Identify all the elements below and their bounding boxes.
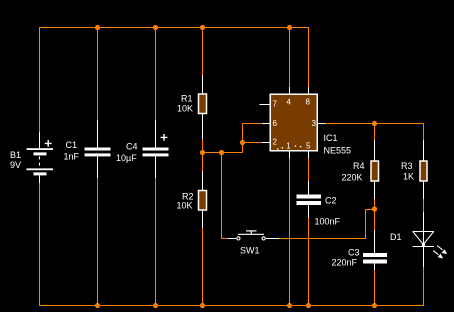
label C3 220nF <box>332 248 360 268</box>
wire R3 bottom to LED <box>423 199 425 212</box>
pin number 5 <box>306 142 311 151</box>
junction pin3 R4 <box>372 121 377 126</box>
label R3 1K <box>401 161 414 182</box>
pin 2 stub <box>262 142 270 144</box>
svg-text:10K: 10K <box>177 104 193 114</box>
wire pin5 to C2 <box>308 159 310 182</box>
svg-text:D1: D1 <box>390 232 402 242</box>
pin number 2 <box>273 138 278 147</box>
label B1 9V <box>10 150 21 170</box>
wire pin1 to ground <box>289 159 291 306</box>
svg-text:3: 3 <box>312 119 317 128</box>
pin 5 stub <box>308 152 310 159</box>
svg-text:R1: R1 <box>181 94 193 104</box>
wire battery top riser <box>39 27 41 132</box>
wire bottom rail ground <box>39 305 424 307</box>
pin 4 stub <box>289 87 291 94</box>
svg-text:R4: R4 <box>353 161 365 171</box>
pin 8 stub <box>308 87 310 94</box>
junction bottom C3 <box>372 303 377 308</box>
junction top R1 <box>200 25 205 30</box>
svg-text:220nF: 220nF <box>332 258 358 268</box>
junction pin2 tap <box>240 140 245 145</box>
capacitor C3 <box>363 230 387 270</box>
capacitor C1 <box>85 120 111 178</box>
resistor R1 <box>199 75 207 139</box>
svg-text:SW1: SW1 <box>240 246 260 256</box>
pin number 3 <box>312 119 317 128</box>
svg-text:5: 5 <box>306 142 311 151</box>
pin number 4 <box>287 98 292 107</box>
svg-text:C3: C3 <box>348 248 360 258</box>
svg-text:R3: R3 <box>401 161 413 171</box>
svg-text:2: 2 <box>273 138 278 147</box>
wire battery bottom riser <box>39 183 41 306</box>
wire pin8 drop <box>308 27 310 87</box>
svg-text:1K: 1K <box>403 172 414 182</box>
label C4 10uF <box>116 142 138 164</box>
wire node A horizontal R1R2 to pins 2-6 <box>203 152 243 154</box>
svg-text:100nF: 100nF <box>315 217 341 227</box>
svg-text:9V: 9V <box>10 160 21 170</box>
svg-text:1nF: 1nF <box>64 152 80 162</box>
svg-text:4: 4 <box>287 98 292 107</box>
pin number 7 <box>273 100 278 109</box>
svg-text:NE555: NE555 <box>324 146 352 156</box>
svg-text:8: 8 <box>306 98 311 107</box>
svg-text:C4: C4 <box>126 142 138 152</box>
capacitor C2 <box>297 181 322 218</box>
resistor R4 <box>371 140 379 199</box>
svg-text:220K: 220K <box>342 173 363 183</box>
pin 7 stub <box>260 104 271 106</box>
op-amp U1 IC1 NE555 body <box>270 94 317 151</box>
junction top C4 <box>153 25 158 30</box>
wire R4 bottom node B <box>374 199 376 230</box>
pin number 8 <box>306 98 311 107</box>
junction node A R1R2 <box>200 150 205 155</box>
wire R1 bottom to node <box>202 139 204 153</box>
resistor R3 <box>420 140 427 199</box>
wire R1 top drop <box>202 27 204 75</box>
resistor R2 <box>199 171 207 228</box>
wire SW1 left drop <box>222 153 229 239</box>
wire C4 top drop <box>155 27 157 120</box>
svg-text:6: 6 <box>273 119 278 128</box>
svg-text:C1: C1 <box>66 140 78 150</box>
wire LED bottom to ground <box>423 267 425 306</box>
label D1 <box>390 232 402 242</box>
wire pin4 drop <box>289 27 291 87</box>
svg-text:IC1: IC1 <box>324 133 338 143</box>
wire SW1 right run to node B <box>279 210 375 239</box>
label R2 10K <box>177 192 194 211</box>
junction bottom R2 <box>200 303 205 308</box>
label R4 220K <box>342 161 365 183</box>
wire R4 top link <box>374 124 376 141</box>
svg-text:B1: B1 <box>10 150 21 160</box>
wire C1 bottom drop <box>97 178 99 306</box>
capacitor C4 <box>143 120 169 178</box>
pin number 6 <box>273 119 278 128</box>
junction node B R4 C3 SW1 <box>372 206 377 211</box>
wire pin2 horizontal <box>243 142 264 144</box>
wire R2 bottom drop <box>202 228 204 306</box>
LED D1 <box>412 212 447 267</box>
svg-text:10µF: 10µF <box>116 153 137 163</box>
wire C3 bottom to ground <box>374 270 376 306</box>
label R1 10K <box>177 94 193 114</box>
junction bottom pin1 <box>287 303 292 308</box>
junction bottom C4 <box>153 303 158 308</box>
wire C4 bottom drop <box>155 178 157 306</box>
wire pin6 horizontal <box>243 123 264 125</box>
svg-text:C2: C2 <box>325 196 337 206</box>
svg-text:10K: 10K <box>177 201 193 211</box>
label C2 100nF <box>315 196 341 227</box>
wire C2 bottom to ground <box>308 218 310 306</box>
junction bottom C2 <box>306 303 311 308</box>
wire top rail V+ <box>39 27 309 29</box>
wire C1 top drop <box>97 27 99 120</box>
junction top C1 <box>95 25 100 30</box>
pin 6 stub <box>262 123 270 125</box>
wire pin6 vertical link <box>242 124 244 153</box>
pin number 1 <box>286 142 291 151</box>
junction top pin4 <box>287 25 292 30</box>
wire R3 top link <box>423 124 425 141</box>
pin 3 stub <box>318 123 326 125</box>
label SW1 <box>240 246 260 256</box>
battery B1 <box>27 132 54 183</box>
junction node A SW1 tap <box>219 150 224 155</box>
switch SW1 <box>228 231 279 240</box>
svg-text:7: 7 <box>273 100 278 109</box>
svg-text:1: 1 <box>286 142 291 151</box>
label IC1 NE555 <box>324 133 352 156</box>
wire R2 top link <box>202 153 204 172</box>
label C1 1nF <box>64 140 80 162</box>
pin 1 stub <box>289 152 291 159</box>
junction bottom C1 <box>95 303 100 308</box>
wire pin3 output run <box>326 123 424 125</box>
